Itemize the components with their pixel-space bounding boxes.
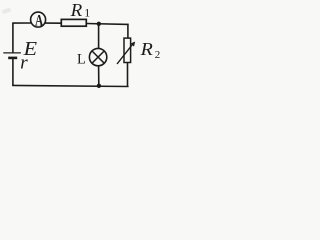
scan smudge top-left (2, 8, 12, 15)
wire right vertical upper (corner to R2) (127, 24, 129, 39)
lamp X cross (92, 51, 104, 63)
rheostat arrow shaft (117, 44, 133, 64)
wire bottom (12, 85, 128, 86)
ammeter A1 circle (31, 12, 46, 27)
wire lamp branch upper (98, 24, 100, 49)
svg-text:A: A (35, 12, 44, 29)
wire left vertical upper (to battery) (12, 22, 14, 52)
wire right vertical lower (R2 to bottom) (127, 62, 129, 86)
wire R1 to top-right corner (86, 23, 128, 26)
svg-text:R: R (70, 0, 83, 20)
resistor R1 box (61, 19, 86, 26)
node junction bottom (97, 84, 101, 88)
wire lamp branch lower (98, 66, 100, 86)
node junction top (after R1) (97, 22, 101, 26)
wire left vertical lower (battery to bottom) (12, 59, 14, 86)
battery E short plate (8, 57, 17, 60)
svg-text:R: R (139, 39, 153, 59)
svg-text:1: 1 (84, 6, 90, 20)
svg-text:L: L (77, 51, 86, 67)
wire ammeter to R1 (45, 22, 62, 24)
wire top-left segment (13, 22, 32, 24)
rheostat arrowhead (131, 42, 135, 47)
lamp L circle (89, 48, 106, 65)
paper background (0, 0, 170, 95)
svg-text:2: 2 (155, 49, 161, 61)
svg-text:r: r (20, 52, 28, 73)
battery E long plate (3, 52, 21, 54)
rheostat R2 box (124, 38, 131, 62)
